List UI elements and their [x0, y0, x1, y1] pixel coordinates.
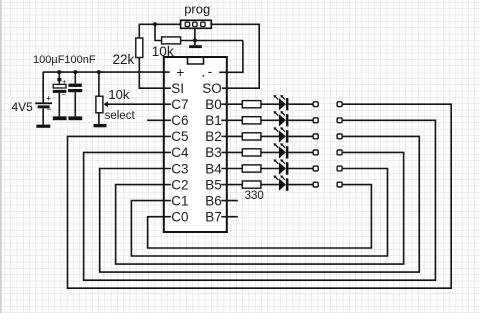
wire minus pin internal stub: [219, 71, 227, 73]
svg-text:prog: prog: [184, 2, 210, 17]
wire loop B3 terminal to C2 pin: [116, 152, 404, 264]
wire resistor to LED D6: [261, 184, 279, 186]
svg-text:+: +: [46, 94, 51, 104]
terminal pin left row 1: [313, 102, 318, 107]
svg-text:SO: SO: [202, 81, 222, 96]
terminal pin right row 2: [337, 118, 342, 123]
wire pot wiper to C7: [108, 103, 164, 105]
terminal pin left row 4: [313, 150, 318, 155]
wire +V rail from battery to IC + pin: [43, 71, 164, 73]
capacitor C2 100nF: [68, 72, 82, 116]
svg-text:select: select: [105, 110, 136, 122]
svg-text:C1: C1: [171, 193, 188, 208]
terminal pin left row 5: [313, 166, 318, 171]
svg-text:B5: B5: [205, 177, 222, 192]
wire resistor to LED D4: [261, 151, 279, 153]
resistor R1 22k: [136, 38, 143, 58]
potentiometer R4 10k select: [96, 72, 108, 124]
svg-text:-: -: [208, 64, 213, 79]
LED D6: [274, 175, 289, 191]
wire SO pin internal stub: [222, 87, 227, 89]
svg-text:B3: B3: [205, 145, 222, 160]
svg-text:C4: C4: [171, 145, 189, 160]
terminal pin right row 6: [337, 182, 342, 187]
ground under C1: [53, 116, 67, 120]
svg-text:B2: B2: [205, 129, 222, 144]
ground under prog connector: [189, 45, 202, 48]
wire + pin internal stub: [164, 71, 170, 73]
wire resistor to LED D5: [261, 168, 279, 170]
resistor RB2 330: [242, 133, 261, 140]
resistor R2 10k (programming): [155, 24, 181, 44]
LED D2: [274, 111, 289, 127]
node: rail junction at 100nF: [73, 70, 77, 74]
svg-text:C7: C7: [171, 97, 188, 112]
LED D1: [274, 95, 289, 111]
wire LED to terminal: [288, 135, 313, 137]
wire B7 stub: [221, 216, 238, 218]
LED D5: [274, 159, 289, 175]
connector J1 prog: [181, 20, 212, 40]
svg-text:10k: 10k: [108, 87, 129, 102]
wire LED to terminal: [288, 103, 313, 105]
battery BT1 4V5: [35, 72, 52, 125]
terminal pin left row 3: [313, 134, 318, 139]
terminal pin right row 1: [337, 102, 342, 107]
svg-text:−: −: [46, 104, 51, 114]
wire 10k right to ground node and minus pin riser: [181, 40, 243, 42]
svg-text:4V5: 4V5: [12, 100, 34, 114]
wire LED to terminal: [288, 184, 313, 186]
svg-text:+: +: [176, 65, 184, 80]
wire LED to terminal: [288, 168, 313, 170]
terminal pin right row 4: [337, 150, 342, 155]
svg-text:B1: B1: [205, 113, 222, 128]
svg-text:C2: C2: [171, 177, 188, 192]
wire C7 pin internal stub: [164, 103, 171, 105]
wire loop B0 terminal to C5 pin: [68, 104, 452, 288]
svg-text:B4: B4: [205, 161, 222, 176]
wire resistor to LED D1: [261, 103, 279, 105]
svg-text:B7: B7: [205, 210, 222, 225]
svg-text:C6: C6: [171, 113, 188, 128]
wire loop B2 terminal to C3 pin: [100, 136, 420, 272]
wire SI pin internal stub: [164, 87, 171, 89]
wire B6 stub: [221, 200, 238, 202]
wire B0 pin to resistor: [221, 103, 242, 105]
wire loop B5 terminal to C0 pin: [148, 185, 372, 248]
resistor RB5 330: [242, 181, 261, 188]
svg-text:330: 330: [245, 190, 264, 202]
canvas left border: [0, 0, 2, 313]
wire B2 pin to resistor: [221, 135, 242, 137]
resistor RB1 330: [242, 117, 261, 124]
capacitor C1 100uF electrolytic: [53, 72, 67, 116]
svg-text:SI: SI: [171, 81, 184, 96]
svg-text:C5: C5: [171, 129, 188, 144]
wire B1 pin to resistor: [221, 119, 242, 121]
wire B5 pin to resistor: [221, 184, 242, 186]
wire B3 pin to resistor: [221, 151, 242, 153]
wire B4 pin to resistor: [221, 168, 242, 170]
wire C6 stub: [147, 119, 171, 121]
terminal pin left row 6: [313, 182, 318, 187]
node junction 22k/10k/prog1: [153, 22, 157, 26]
ground under pot: [94, 124, 107, 127]
node: rail junction at 100uF: [57, 70, 61, 74]
terminal pin right row 3: [337, 134, 342, 139]
svg-text:B0: B0: [205, 97, 222, 112]
svg-text:C0: C0: [171, 210, 188, 225]
wire resistor to LED D3: [261, 135, 279, 137]
LED D4: [274, 143, 289, 159]
ground under battery: [36, 125, 50, 128]
svg-text:−: −: [61, 91, 66, 100]
svg-text:100µF100nF: 100µF100nF: [33, 54, 96, 66]
svg-text:C3: C3: [171, 161, 188, 176]
wire loop B4 terminal to C1 pin: [131, 169, 387, 257]
resistor RB0 330: [242, 101, 261, 108]
terminal pin right row 5: [337, 166, 342, 171]
op-amp/microcontroller U1: [164, 57, 227, 232]
ground under C2: [68, 116, 82, 120]
resistor RB3 330: [242, 149, 261, 156]
wire loop B1 terminal to C4 pin: [84, 120, 436, 280]
resistor RB4 330: [242, 165, 261, 172]
wire 22k bottom to SI pin: [139, 58, 164, 89]
wire LED to terminal: [288, 119, 313, 121]
wire prog pin3 to SO pin: [211, 24, 259, 88]
terminal pin left row 2: [313, 118, 318, 123]
svg-text:B6: B6: [205, 193, 222, 208]
node: rail junction at pot: [97, 70, 101, 74]
LED D3: [274, 127, 289, 143]
wire resistor to LED D2: [261, 119, 279, 121]
wire LED to terminal: [288, 151, 313, 153]
svg-text:22k: 22k: [113, 52, 135, 67]
wire minus pin to riser: [219, 41, 243, 73]
wire 22k top to prog pin1: [139, 24, 180, 38]
node junction gnd/10k/prog2: [193, 39, 197, 43]
wire gnd stub: [194, 41, 196, 46]
